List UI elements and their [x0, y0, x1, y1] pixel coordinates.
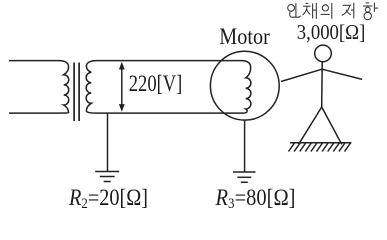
person leg left — [299, 107, 322, 144]
transformer core line left — [73, 63, 75, 122]
label Korean: in-che-ui jeo-hang (human body resistance) — [288, 3, 379, 20]
transformer primary winding — [59, 61, 69, 114]
hangul syllable IN — [288, 3, 301, 17]
wire motor ground tap — [244, 120, 246, 171]
ground symbol R2 — [95, 172, 119, 182]
svg-text:220[V]: 220[V] — [129, 71, 183, 96]
person body — [321, 62, 324, 107]
earth hatching — [289, 143, 351, 152]
hangul syllable HANG — [363, 3, 378, 20]
svg-text:Motor: Motor — [219, 24, 270, 49]
transformer secondary winding — [86, 61, 96, 114]
person head — [315, 45, 332, 62]
motor winding — [242, 61, 251, 114]
person leg right — [322, 107, 342, 144]
ground symbol R3 — [233, 172, 256, 182]
wire primary top — [9, 60, 59, 62]
wire ground tap R2 — [107, 113, 109, 171]
transformer core line right — [78, 63, 80, 122]
motor M circle — [210, 51, 279, 120]
voltage arrow 220[V] — [119, 62, 125, 112]
earth line under person — [290, 142, 352, 144]
person arm right — [322, 69, 362, 79]
hangul syllable CHE — [303, 3, 317, 19]
wire secondary bottom — [96, 112, 243, 114]
wire primary bottom — [9, 112, 59, 114]
svg-text:R3=80[Ω]: R3=80[Ω] — [215, 185, 296, 212]
svg-text:R2=20[Ω]: R2=20[Ω] — [68, 185, 148, 212]
hangul syllable UI — [321, 3, 332, 19]
hangul syllable JEO — [342, 3, 354, 19]
wire secondary top — [96, 60, 243, 62]
person arm left — [281, 69, 322, 81]
svg-text:3,000[Ω]: 3,000[Ω] — [297, 20, 366, 44]
